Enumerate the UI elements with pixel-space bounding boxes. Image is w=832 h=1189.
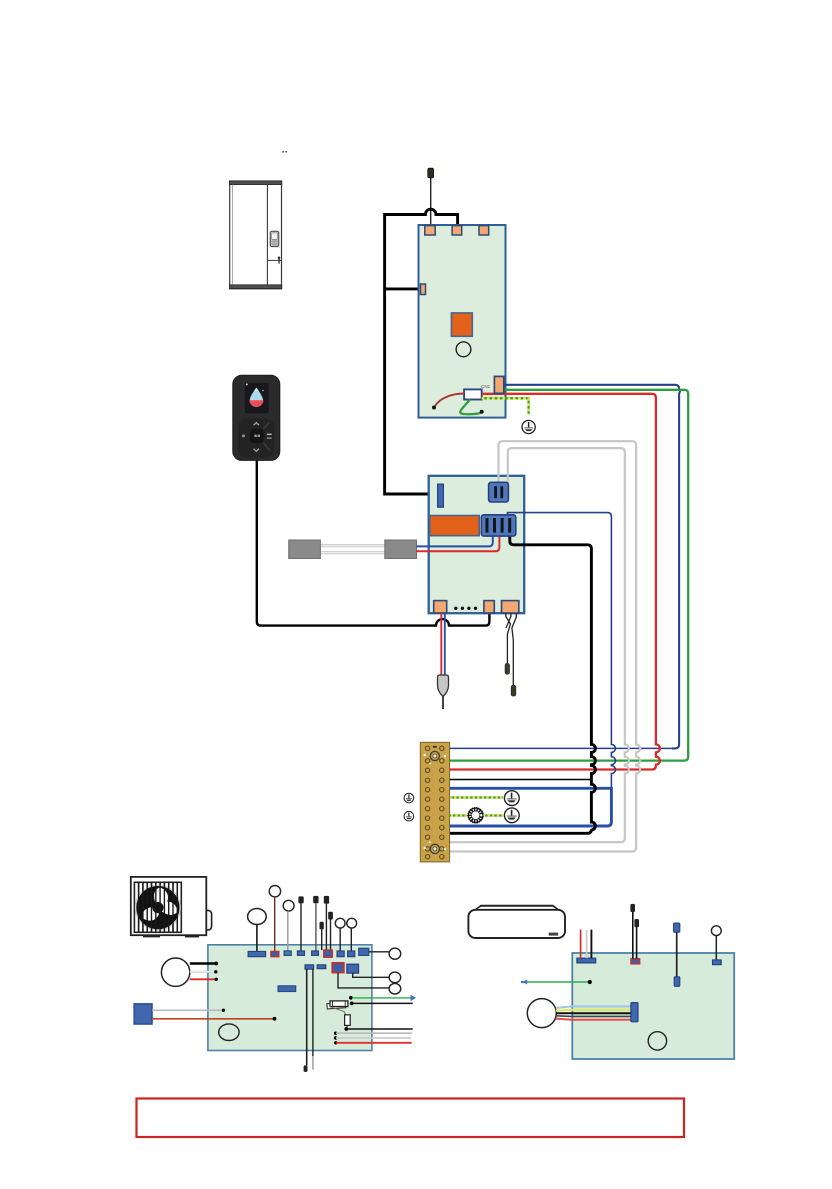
fuse output wire xyxy=(353,1002,413,1004)
PCB2 vertical connector xyxy=(438,484,444,507)
wire blue1 to strip xyxy=(450,747,674,749)
sensor wire 1 xyxy=(632,912,634,959)
remote controller xyxy=(233,375,280,460)
IC chip xyxy=(278,986,296,992)
control board PCB1 xyxy=(419,225,506,418)
wire compressor xyxy=(256,925,258,952)
probe wire red xyxy=(440,613,442,676)
mains wire thick black xyxy=(385,209,458,494)
wire blue plug to PCB2 xyxy=(417,535,493,546)
thermistor wires xyxy=(506,613,517,685)
connector 6 red xyxy=(324,950,333,957)
green arrow wire xyxy=(349,996,353,1000)
display circle xyxy=(711,926,721,936)
resistor vertical xyxy=(345,1015,351,1026)
fuse to resistor link xyxy=(330,1007,346,1015)
terminal T6c xyxy=(320,922,324,930)
earth symbol left 2 xyxy=(404,811,414,821)
circle D xyxy=(389,972,401,983)
PCB2 output connector (4 slot) xyxy=(481,515,516,536)
terminal T6b xyxy=(328,912,333,920)
wire thick black PCB2 to terminal xyxy=(450,535,596,833)
PCB1 side connector xyxy=(421,284,426,295)
row2 connector B xyxy=(317,965,326,969)
wire red up xyxy=(580,930,582,959)
fan motor indoor xyxy=(527,999,556,1028)
terminal T5 xyxy=(313,896,318,903)
branch wire to PCB1 side connector xyxy=(385,287,421,290)
gray signal wire outer xyxy=(450,441,640,851)
PCB1 top connector 3 xyxy=(479,226,489,235)
PCB2 bottom connector 3 xyxy=(502,601,519,613)
neutral wire (green loop) xyxy=(460,400,481,415)
red output wire xyxy=(334,1041,337,1044)
fan connector xyxy=(631,1003,638,1022)
capacitor wire gray xyxy=(152,1009,223,1011)
terminal circle 7 xyxy=(335,918,345,928)
fan motor outdoor xyxy=(161,958,189,986)
outdoor board PCB3 xyxy=(208,945,372,1051)
long wire 1 plug xyxy=(304,1065,308,1072)
PCB4 power connector xyxy=(577,958,596,963)
louvre motor terminal xyxy=(674,923,680,932)
relay block (orange) xyxy=(430,516,479,536)
display connector xyxy=(713,960,722,965)
wire louvre xyxy=(676,932,678,977)
earth symbol terminal 2 xyxy=(504,808,519,823)
mounting hole PCB4 xyxy=(648,1032,666,1050)
terminal circle 8 xyxy=(347,918,357,928)
motor wire red xyxy=(190,978,216,980)
probe tip wire xyxy=(442,697,444,710)
svg-text:CN1: CN1 xyxy=(481,384,491,389)
motor wire white xyxy=(190,971,216,973)
gray signal wire inner xyxy=(450,448,629,842)
indoor board PCB4 xyxy=(572,953,734,1059)
indoor unit xyxy=(468,905,565,938)
earth symbol (below CN1) xyxy=(522,420,535,433)
relay board PCB2 xyxy=(429,476,525,613)
capacitor wire red xyxy=(152,1018,274,1020)
mounting hole PCB1 xyxy=(456,342,471,357)
warning box xyxy=(137,1099,685,1138)
pump plug right xyxy=(385,540,417,559)
CN1 green wire xyxy=(450,390,689,761)
terminal circle 3 xyxy=(283,900,294,911)
capacitor xyxy=(134,1004,152,1024)
PCB2 bottom connector 1 xyxy=(434,601,447,613)
power connector (white) xyxy=(464,389,482,399)
wire D to circle xyxy=(353,973,389,977)
wire sensor to PCB1 xyxy=(430,178,432,226)
earth wire striped (PCB1) xyxy=(482,398,529,414)
terminal circle 2 xyxy=(269,886,280,897)
louvre connector xyxy=(674,977,680,987)
remote control wire xyxy=(257,460,490,625)
PCB2 top-right connector xyxy=(489,482,509,502)
earth symbol terminal 1 xyxy=(504,791,519,806)
long wire 2 xyxy=(312,969,314,1056)
CN1 red wire xyxy=(450,394,660,770)
probe wire blue xyxy=(444,613,446,676)
sensor wire 2 xyxy=(636,927,638,959)
wire 2 xyxy=(274,897,276,952)
row2 connector D xyxy=(347,964,359,973)
connector 9 xyxy=(359,948,369,955)
green earth wire indoor xyxy=(527,981,590,983)
PCB1 top connector 1 xyxy=(425,226,435,235)
PCB2 led dots xyxy=(454,607,477,610)
wire white up xyxy=(586,930,588,958)
wire black up xyxy=(590,930,592,959)
row2 connector C red xyxy=(332,963,344,973)
wire thick blue terminal link xyxy=(450,788,612,826)
row2 connector A xyxy=(305,965,314,969)
terminal T4 xyxy=(298,896,303,903)
pump plug left xyxy=(289,540,321,559)
earth wire striped terminal 2 xyxy=(450,814,503,816)
gray output wire 2 xyxy=(334,1036,337,1039)
pump plug gray wires xyxy=(320,546,384,553)
transformer (orange square) xyxy=(451,313,472,336)
compressor circle xyxy=(248,909,267,925)
star washer xyxy=(467,807,484,824)
fuse xyxy=(327,1001,348,1009)
wire red plug to PCB2 xyxy=(417,535,500,551)
wire C to circle xyxy=(338,973,389,988)
wire thin blue PCB2 to terminal xyxy=(450,513,616,826)
connector comp xyxy=(248,951,266,956)
resistor output wire xyxy=(347,1028,413,1030)
wire to reactor circle xyxy=(369,951,389,953)
reactor circle xyxy=(389,948,401,959)
outdoor unit xyxy=(131,877,212,936)
fan wires xyxy=(556,1006,631,1019)
PCB4 sensor connector red xyxy=(631,959,640,964)
circle C xyxy=(389,983,401,994)
flue sensor terminal xyxy=(428,168,434,178)
long wire 1 xyxy=(306,969,308,1065)
terminal strip xyxy=(420,742,449,862)
motor wire black xyxy=(190,962,216,965)
boiler cabinet xyxy=(229,181,281,289)
wire 3 xyxy=(287,911,289,951)
thermistor sensor 1 xyxy=(505,664,509,675)
connector CN1 xyxy=(494,376,503,393)
mounting hole PCB3 xyxy=(219,1024,239,1041)
terminal T6a xyxy=(324,896,329,904)
gray output wire 1 xyxy=(334,1032,337,1035)
thermistor sensor 2 xyxy=(511,685,516,696)
CN1 blue wire xyxy=(504,385,680,749)
connector 2 red xyxy=(271,951,279,956)
wire thin black terminal link xyxy=(450,779,592,781)
earth symbol left 1 xyxy=(404,793,414,803)
PCB1 top connector 2 xyxy=(452,226,462,235)
wire display xyxy=(715,936,717,960)
dots mark xyxy=(282,151,284,153)
live wire (dark red) xyxy=(435,394,464,407)
earth wire striped terminal 1 xyxy=(450,796,503,798)
PCB2 bottom connector 2 xyxy=(484,601,494,613)
ignition probe xyxy=(438,675,449,697)
connector 3 xyxy=(284,951,291,956)
